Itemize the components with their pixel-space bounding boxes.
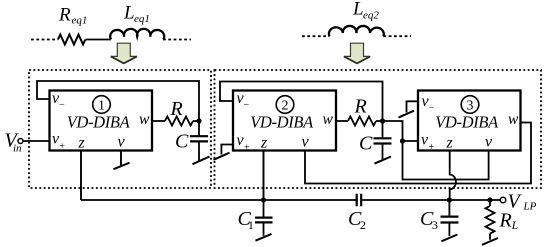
ground (stage 2 C) <box>375 157 392 164</box>
svg-text:VD-DIBA: VD-DIBA <box>435 113 499 132</box>
block arrow down (left) <box>111 43 137 63</box>
svg-text:in: in <box>13 143 22 155</box>
svg-text:L: L <box>352 0 364 20</box>
svg-text:VD-DIBA: VD-DIBA <box>250 113 314 132</box>
capacitor C3 <box>448 200 450 216</box>
node Y junction <box>400 138 405 143</box>
wire U2 w output <box>336 120 348 122</box>
terminal Vin <box>18 139 23 144</box>
inductor Leq2 <box>329 26 384 36</box>
wire between Req1 and Leq1 <box>86 39 112 41</box>
wire Vin to U1 v+ <box>23 140 50 142</box>
resistor R (stage 1) <box>165 117 193 126</box>
node A junction <box>196 118 201 123</box>
svg-text:+: + <box>244 143 250 154</box>
wire U2 v- feedback loop <box>220 82 383 122</box>
label U2 number 2 <box>276 96 294 114</box>
dotted box left <box>29 70 211 188</box>
svg-text:eq1: eq1 <box>72 15 88 27</box>
ground (C3) <box>441 235 457 242</box>
node junction RL <box>487 197 492 202</box>
ground (RL) <box>482 238 498 245</box>
svg-text:LP: LP <box>523 201 537 213</box>
capacitor C (stage 2) <box>382 121 384 138</box>
wire U3 v- to ground <box>407 101 419 112</box>
svg-text:R: R <box>170 98 183 120</box>
resistor Req1 <box>58 35 85 45</box>
svg-text:C: C <box>359 133 373 155</box>
terminal VLP <box>500 197 506 203</box>
resistor R (stage 2) <box>348 117 376 126</box>
ground (U2 v+) <box>214 153 230 160</box>
wire dashed lead left of Leq2 <box>302 35 330 37</box>
svg-text:+: + <box>429 142 435 153</box>
node junction C3 <box>447 197 452 202</box>
wire U1 z to bottom rail <box>80 151 82 201</box>
label U3 number 3 <box>461 96 479 114</box>
svg-text:z: z <box>78 135 86 152</box>
wire U1 v- feedback loop <box>37 81 199 121</box>
svg-text:C: C <box>175 131 189 153</box>
ground (U3 v-) <box>399 111 415 118</box>
svg-text:VD-DIBA: VD-DIBA <box>67 113 131 132</box>
dotted box right <box>215 70 542 188</box>
node B junction <box>380 118 385 123</box>
wire U3 z to bottom rail with hop <box>450 151 456 201</box>
svg-text:z: z <box>260 135 268 152</box>
block arrow down (right) <box>344 43 370 63</box>
svg-text:−: − <box>244 100 250 111</box>
wire U1 w output <box>152 120 165 122</box>
node junction C1 <box>261 197 266 202</box>
ground (C1) <box>256 234 272 241</box>
svg-text:L: L <box>123 3 135 24</box>
wire dashed lead right of Leq1 <box>163 39 191 41</box>
ground (U1 v) <box>114 163 130 170</box>
svg-text:+: + <box>59 141 65 152</box>
ground (stage 1 C) <box>193 157 210 165</box>
inductor Leq1 <box>110 29 164 40</box>
svg-text:eq1: eq1 <box>134 13 150 25</box>
svg-text:v: v <box>302 134 310 151</box>
svg-text:w: w <box>139 111 150 128</box>
svg-text:−: − <box>59 100 65 111</box>
wire node B to node Y and U3 v+ <box>383 121 419 141</box>
svg-text:−: − <box>429 103 435 114</box>
capacitor C (stage 1) <box>198 121 200 136</box>
svg-text:2: 2 <box>282 99 289 114</box>
wire dashed lead right of Leq2 <box>383 35 411 37</box>
svg-text:z: z <box>446 135 454 152</box>
op-amp block U2 VD-DIBA <box>233 91 336 151</box>
capacitor C2 (series) <box>357 194 362 207</box>
svg-text:v: v <box>118 134 126 151</box>
svg-text:R: R <box>58 5 71 26</box>
op-amp block U3 VD-DIBA <box>418 91 521 151</box>
wire node Y down and right to U3 v <box>403 141 489 180</box>
resistor RL <box>489 200 491 206</box>
wire U2 v+ to ground <box>221 145 233 155</box>
wire U2 v to U3 w feedback <box>305 123 531 184</box>
wire U1 v to ground <box>120 151 122 166</box>
wire U2 z to bottom rail <box>263 151 265 201</box>
wire bottom rail <box>81 199 500 201</box>
op-amp block U1 VD-DIBA <box>50 91 153 151</box>
svg-text:w: w <box>508 111 519 128</box>
label U1 number 1 <box>93 96 111 114</box>
svg-text:R: R <box>354 96 367 118</box>
wire R to node A <box>193 120 199 122</box>
capacitor C1 <box>263 200 265 217</box>
svg-text:v: v <box>485 134 493 151</box>
svg-text:3: 3 <box>467 99 474 114</box>
svg-text:1: 1 <box>98 99 105 114</box>
wire R to node B <box>376 120 383 122</box>
wire dashed lead left of Req1 <box>31 39 58 41</box>
svg-text:eq2: eq2 <box>363 10 379 22</box>
svg-text:w: w <box>323 111 334 128</box>
